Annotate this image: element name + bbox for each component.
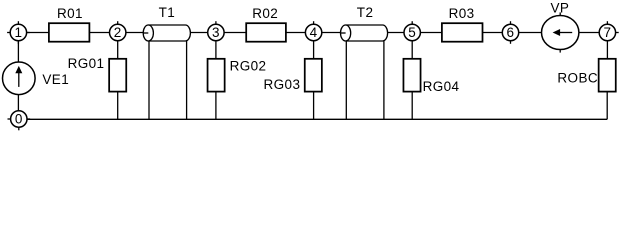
wire node3 to RG02: [215, 33, 217, 59]
wire node6 to VP: [511, 32, 542, 34]
wire node5 to R03: [412, 32, 442, 34]
wire RG04 to rail: [411, 92, 413, 120]
wire node4 to RG03: [313, 33, 315, 59]
svg-text:3: 3: [212, 25, 220, 40]
wire R01 to node2: [89, 32, 117, 34]
svg-text:R02: R02: [252, 6, 278, 21]
voltmeter VP: [542, 12, 579, 52]
svg-text:RG03: RG03: [264, 77, 301, 92]
wire ground rail node0 to ROBC: [19, 118, 607, 120]
svg-text:VP: VP: [551, 1, 570, 16]
node 2: [110, 21, 126, 40]
svg-text:4: 4: [310, 25, 318, 40]
svg-text:RG01: RG01: [68, 56, 105, 71]
svg-text:ROBC: ROBC: [557, 71, 598, 86]
wire ROBC to rail: [606, 92, 608, 120]
wire node2 to RG01: [117, 33, 119, 59]
wire T2 to node5: [388, 32, 413, 34]
resistor R02: [246, 23, 286, 42]
wire node2 to T1: [118, 32, 149, 34]
wire T1 to node3: [190, 32, 216, 34]
resistor R03: [442, 23, 483, 42]
wire R03 to node6: [483, 32, 511, 34]
node 3: [208, 21, 224, 40]
wire VE1 to node0: [17, 95, 19, 119]
wire node7 to ROBC: [606, 33, 608, 59]
wire node1 to R01: [18, 32, 49, 34]
svg-text:6: 6: [507, 25, 515, 40]
resistor RG01: [109, 59, 126, 92]
node 0: [8, 111, 31, 131]
svg-text:T2: T2: [357, 5, 374, 20]
node 6: [502, 21, 518, 44]
wire T2 pin4 to rail: [383, 41, 385, 119]
svg-text:R03: R03: [449, 6, 475, 21]
resistor R01: [49, 23, 90, 42]
wire VP to node7: [579, 32, 608, 34]
svg-text:1: 1: [14, 25, 22, 40]
resistor RG02: [208, 59, 225, 92]
wire node4 to T2: [314, 32, 346, 34]
wire T1 pin2 to rail: [148, 41, 150, 119]
node 1: [7, 21, 30, 44]
svg-text:2: 2: [114, 25, 122, 40]
wire R02 to node4: [286, 32, 314, 34]
voltage source VE1: [2, 62, 35, 95]
resistor RG03: [305, 59, 322, 92]
wire node3 to R02: [216, 32, 246, 34]
resistor RG04: [403, 59, 420, 92]
svg-text:0: 0: [15, 112, 23, 127]
svg-text:7: 7: [603, 25, 611, 40]
transmission line T1: [143, 25, 190, 41]
node 4: [305, 21, 321, 40]
svg-text:RG04: RG04: [423, 79, 460, 94]
svg-text:VE1: VE1: [42, 72, 69, 87]
svg-text:T1: T1: [159, 5, 176, 20]
svg-text:R01: R01: [57, 6, 83, 21]
wire node1 to VE1: [17, 33, 19, 63]
node 7: [599, 21, 619, 40]
svg-text:RG02: RG02: [230, 58, 267, 73]
wire node5 to RG04: [411, 33, 413, 59]
svg-text:5: 5: [408, 25, 416, 40]
transmission line T2: [341, 25, 388, 41]
resistor ROBC: [599, 59, 616, 92]
wire T1 pin4 to rail: [186, 41, 188, 119]
wire T2 pin2 to rail: [345, 41, 347, 119]
wire RG03 to rail: [313, 92, 315, 120]
node 5: [404, 21, 420, 40]
wire RG02 to rail: [215, 92, 217, 120]
wire RG01 to rail: [117, 92, 119, 120]
